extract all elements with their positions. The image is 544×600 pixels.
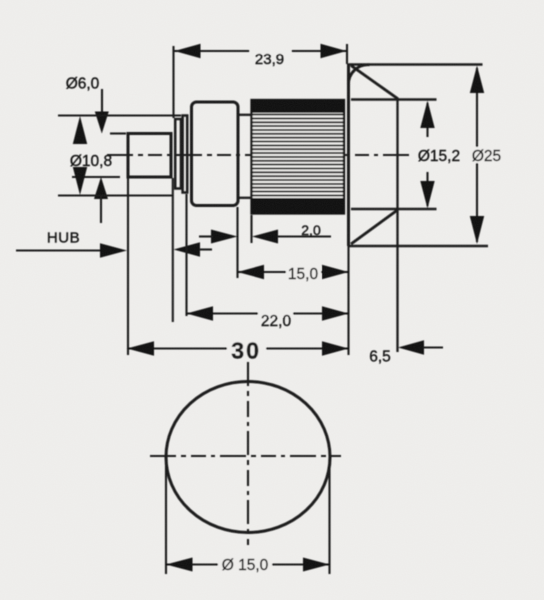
dim 30 left arrowhead bbox=[127, 341, 154, 355]
dim 2,0 left shaft bbox=[199, 235, 213, 237]
svg-text:Ø 15,0: Ø 15,0 bbox=[222, 557, 269, 574]
svg-text:HUB: HUB bbox=[47, 230, 80, 247]
inner cylinder top edge + Ø15,2 extension bbox=[351, 98, 437, 101]
flange top chamfer bbox=[351, 66, 398, 99]
svg-text:Ø6,0: Ø6,0 bbox=[66, 76, 100, 93]
extension line x=237.5 (collar right face) bbox=[236, 207, 238, 278]
dim Ø6,0 upper arrowhead (points down to rod top) bbox=[95, 112, 109, 134]
dim 22,0 left arrowhead bbox=[187, 306, 214, 320]
dim Ø6,0 upper extension line bbox=[110, 132, 126, 134]
wire: main horizontal centerline of side view bbox=[107, 154, 414, 156]
dim 15,0 line bbox=[238, 271, 349, 273]
bushing collar bbox=[192, 102, 239, 206]
dim 23,9 label bbox=[250, 48, 292, 68]
flange front face bbox=[347, 64, 350, 247]
dim Ø 15,0 left arrowhead bbox=[166, 558, 193, 572]
svg-text:30: 30 bbox=[231, 338, 261, 364]
groove top edge (2,0 feature) bbox=[238, 114, 252, 116]
dim 22,0 line bbox=[187, 312, 349, 314]
extension line x=128 (plunger face) bbox=[127, 178, 129, 355]
dim 23,9 left arrowhead bbox=[175, 44, 201, 58]
bottom dim extension line right bbox=[328, 456, 330, 574]
dim 30 right arrowhead bbox=[322, 341, 349, 355]
dim Ø 15,0 right arrowhead bbox=[303, 558, 330, 572]
extension line x=251.5 (knurl left face) bbox=[250, 215, 252, 243]
dim Ø6,0 lower arrowhead (points up to rod bottom) bbox=[94, 177, 108, 199]
knurled nut body bbox=[252, 100, 345, 214]
dim 23,9 extension line at x=175 bbox=[172, 46, 174, 118]
dim 22,0 label bbox=[258, 311, 293, 330]
dim Ø10,8 lower arrowhead (points down) bbox=[73, 167, 87, 195]
groove bottom edge bbox=[238, 197, 252, 199]
bottom view vertical centerline bbox=[247, 362, 249, 545]
dim 2,0 right shaft bbox=[277, 235, 331, 237]
dim Ø10,8 upper arrowhead (points up) bbox=[73, 116, 87, 144]
inner cylinder bottom edge + Ø15,2 extension bbox=[351, 208, 437, 211]
dim 30 line bbox=[127, 347, 349, 349]
dim 15,0 left arrowhead bbox=[238, 265, 265, 279]
dim Ø6,0 lower shaft bbox=[100, 197, 102, 223]
HUB second arrowhead (points left at x=173 line) bbox=[174, 242, 201, 256]
extension line x=173 (plunger right face) bbox=[172, 178, 174, 322]
dim 15,0 label bbox=[286, 266, 321, 283]
svg-text:22,0: 22,0 bbox=[261, 313, 292, 330]
HUB dimension line bbox=[16, 249, 104, 251]
svg-text:6,5: 6,5 bbox=[369, 349, 391, 366]
dim 23,9 line bbox=[175, 50, 347, 52]
dim 23,9 right extension line bbox=[346, 44, 348, 64]
svg-text:15,0: 15,0 bbox=[288, 266, 319, 283]
flange rim arc bbox=[348, 65, 369, 85]
dim Ø6,0 lower extension line bbox=[72, 176, 120, 178]
ring A (first neck washer) bbox=[175, 119, 181, 189]
dim Ø6,0 leader shaft bbox=[101, 89, 103, 116]
dim Ø25 upper arrow bbox=[476, 68, 478, 148]
svg-text:23,9: 23,9 bbox=[255, 51, 284, 68]
bottom dim extension line left bbox=[165, 456, 167, 574]
dim 6,5 shaft bbox=[423, 346, 443, 348]
bottom view horizontal centerline bbox=[150, 455, 341, 457]
dim 15,0 right arrowhead bbox=[322, 265, 349, 279]
dim 6,5 arrowhead (points left at x=397.5) bbox=[398, 340, 424, 354]
bottom view: button face circle bbox=[166, 382, 330, 533]
svg-text:2,0: 2,0 bbox=[301, 222, 321, 238]
inner cylinder back face + 6,5 extension line bbox=[396, 98, 398, 353]
dim Ø10,8 upper extension line bbox=[58, 114, 181, 116]
dim Ø15,2 lower arrow bbox=[426, 172, 428, 206]
flange bottom edge + Ø25 extension line bbox=[349, 245, 489, 248]
dim Ø 15,0 line bbox=[166, 563, 330, 565]
flange bottom chamfer bbox=[351, 210, 398, 244]
dim Ø15,2 upper arrow bbox=[426, 103, 428, 137]
extension line x=348.5 (flange front face, below) bbox=[347, 246, 349, 355]
dim Ø25 lower arrow bbox=[476, 162, 478, 242]
dim 30 label bbox=[227, 338, 266, 364]
svg-text:Ø10,8: Ø10,8 bbox=[70, 153, 112, 170]
paper noise overlay bbox=[0, 0, 1, 1]
ring B (second neck washer) bbox=[183, 116, 188, 193]
dim 2,0 right arrowhead (points left at x=251.5) bbox=[252, 230, 278, 244]
plunger rod (button shaft) bbox=[128, 134, 171, 178]
dim Ø 15,0 label bbox=[218, 555, 272, 574]
dim 22,0 right arrowhead bbox=[322, 306, 349, 320]
extension line x=186.5 (ring B edge) bbox=[185, 194, 187, 316]
dim 23,9 right arrowhead bbox=[321, 44, 347, 58]
dim Ø25 label bbox=[470, 147, 504, 165]
dim 2,0 left arrowhead (points right at x=237.5) bbox=[211, 230, 238, 244]
flange top edge + Ø25 extension line bbox=[349, 63, 483, 66]
HUB second shaft bbox=[199, 248, 212, 250]
svg-text:Ø25: Ø25 bbox=[472, 148, 501, 165]
dim Ø10,8 lower extension line bbox=[58, 194, 172, 196]
HUB arrowhead (points right at plunger face line) bbox=[100, 243, 127, 257]
svg-text:Ø15,2: Ø15,2 bbox=[418, 148, 460, 165]
